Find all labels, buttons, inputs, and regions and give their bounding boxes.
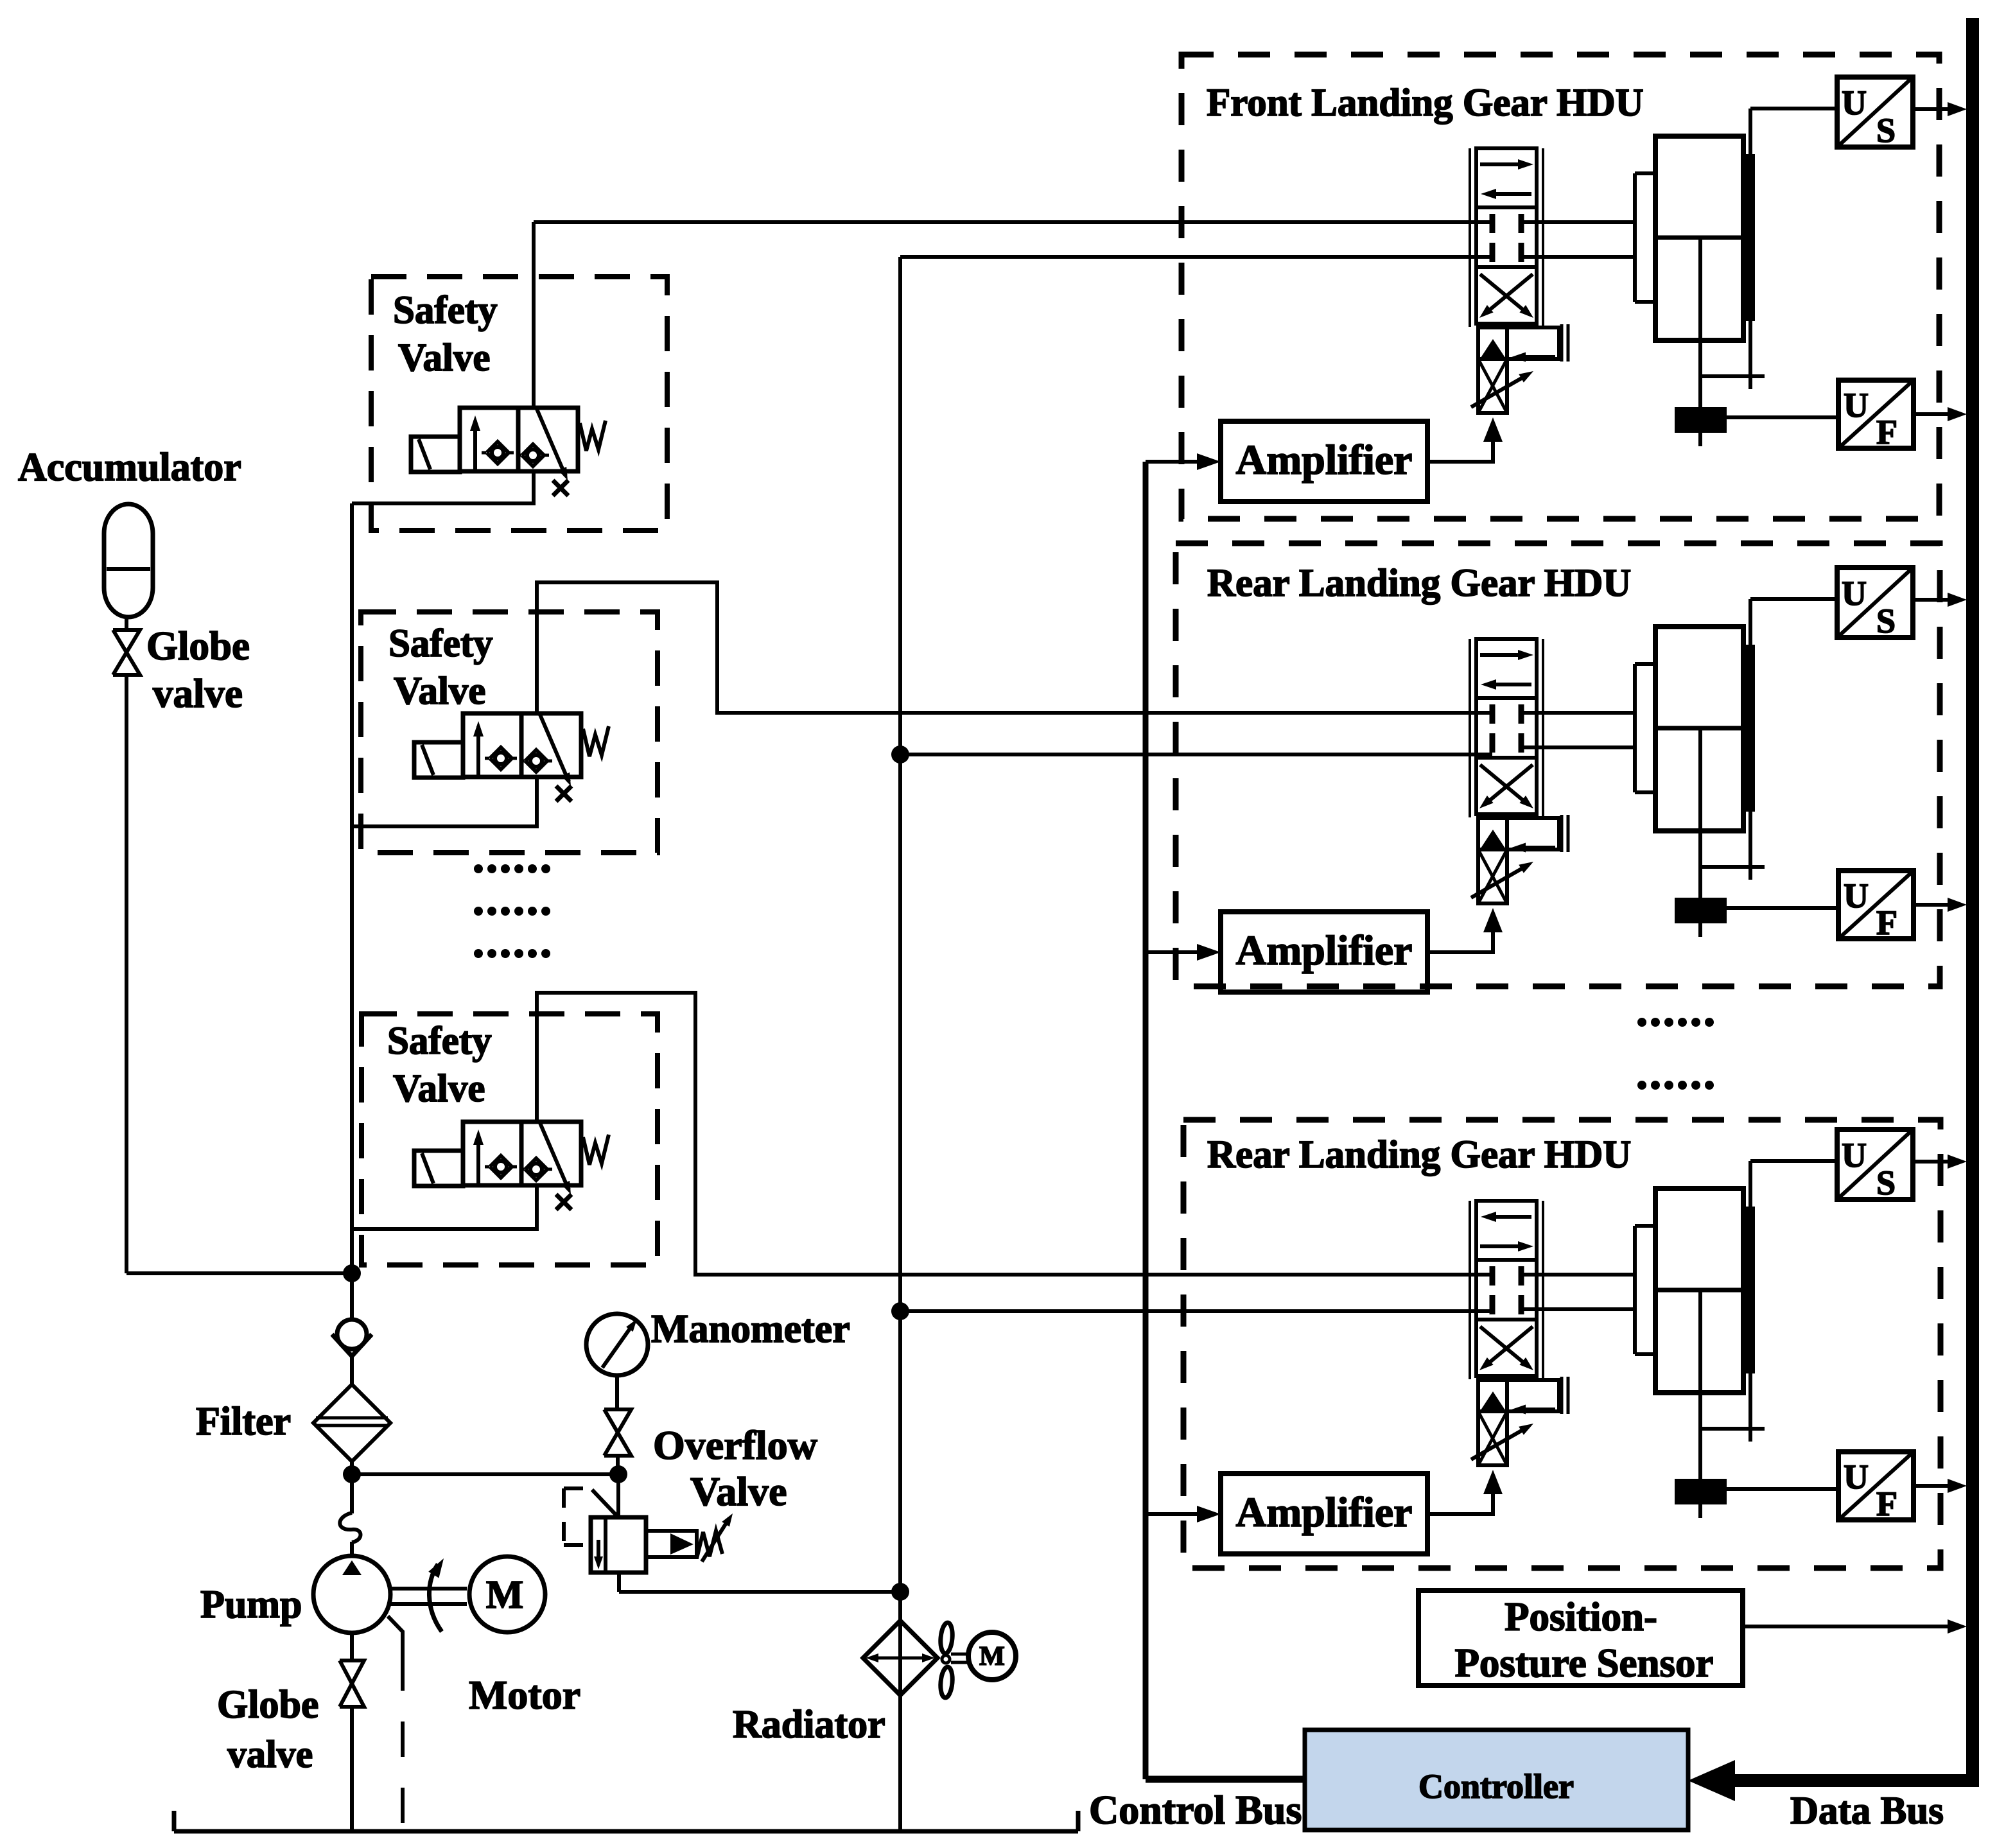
svg-text:M: M	[486, 1573, 524, 1617]
svg-text:M: M	[979, 1642, 1005, 1671]
svg-text:Valve: Valve	[393, 1067, 485, 1110]
svg-text:Valve: Valve	[690, 1469, 787, 1514]
svg-text:F: F	[1876, 1485, 1897, 1523]
svg-text:U: U	[1842, 1136, 1867, 1174]
svg-text:Pump: Pump	[200, 1583, 302, 1626]
svg-text:valve: valve	[227, 1733, 313, 1775]
svg-text:S: S	[1876, 1164, 1896, 1202]
svg-text:Globe: Globe	[217, 1683, 318, 1727]
svg-text:Globe: Globe	[146, 623, 250, 668]
svg-text:Accumulator: Accumulator	[18, 446, 241, 489]
svg-text:U: U	[1844, 876, 1869, 915]
svg-text:Valve: Valve	[398, 336, 490, 379]
svg-text:Overflow: Overflow	[653, 1422, 817, 1468]
svg-text:Position-: Position-	[1504, 1594, 1657, 1639]
svg-text:valve: valve	[153, 671, 243, 716]
svg-text:Controller: Controller	[1418, 1767, 1574, 1806]
svg-text:Amplifier: Amplifier	[1236, 437, 1413, 484]
svg-text:Amplifier: Amplifier	[1236, 1489, 1413, 1536]
svg-text:Data Bus: Data Bus	[1790, 1790, 1944, 1833]
svg-text:S: S	[1876, 602, 1896, 640]
svg-text:Rear Landing Gear HDU: Rear Landing Gear HDU	[1207, 562, 1631, 605]
svg-text:Safety: Safety	[388, 622, 493, 665]
svg-text:U: U	[1842, 574, 1867, 613]
svg-text:Safety: Safety	[387, 1020, 492, 1063]
svg-text:Radiator: Radiator	[733, 1703, 885, 1747]
svg-text:Front Landing Gear HDU: Front Landing Gear HDU	[1207, 82, 1644, 125]
svg-text:Posture Sensor: Posture Sensor	[1454, 1641, 1713, 1686]
svg-text:Amplifier: Amplifier	[1236, 927, 1413, 974]
svg-text:Rear Landing Gear HDU: Rear Landing Gear HDU	[1207, 1133, 1631, 1176]
svg-text:Manometer: Manometer	[651, 1307, 850, 1351]
svg-text:Filter: Filter	[196, 1400, 291, 1443]
svg-text:U: U	[1844, 1458, 1869, 1496]
svg-text:Motor: Motor	[469, 1672, 580, 1718]
svg-text:U: U	[1844, 386, 1869, 424]
svg-text:F: F	[1876, 413, 1897, 451]
svg-text:Valve: Valve	[394, 670, 485, 713]
svg-text:Safety: Safety	[393, 289, 498, 332]
svg-text:Control Bus: Control Bus	[1089, 1787, 1302, 1833]
svg-text:F: F	[1876, 903, 1897, 942]
svg-text:U: U	[1842, 83, 1867, 122]
svg-text:S: S	[1876, 111, 1896, 150]
